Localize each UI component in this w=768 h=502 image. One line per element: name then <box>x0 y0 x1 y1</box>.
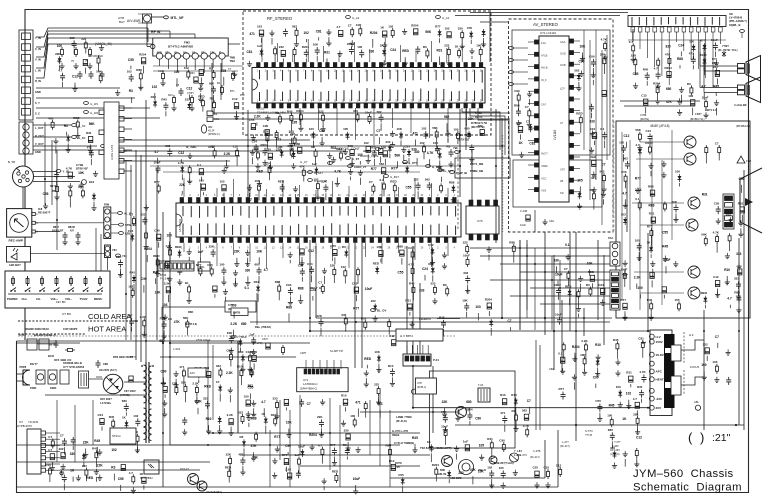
svg-text:C7: C7 <box>129 213 133 217</box>
wire <box>69 198 71 207</box>
U401 pin 3 <box>119 127 124 132</box>
svg-text:10uF: 10uF <box>441 425 448 429</box>
resistor <box>156 258 159 268</box>
ground <box>382 42 387 48</box>
wire <box>690 32 692 60</box>
svg-text:C7: C7 <box>715 142 719 146</box>
svg-text:C8? 400V: C8? 400V <box>124 389 136 393</box>
capacitor <box>78 71 83 79</box>
resistor <box>279 114 282 124</box>
video out transistor <box>688 287 700 299</box>
wire bus <box>119 155 240 157</box>
U201 top pin names <box>183 206 456 218</box>
wire <box>681 95 683 104</box>
svg-text:C7: C7 <box>564 267 568 271</box>
svg-text:???-B: ???-B <box>585 433 592 437</box>
ground <box>576 85 581 91</box>
wire <box>294 57 296 64</box>
electrolytic capacitor <box>61 453 65 459</box>
svg-text:LV1116: LV1116 <box>553 129 557 140</box>
svg-text:C55: C55 <box>714 202 720 206</box>
capacitor <box>656 71 661 79</box>
ground <box>442 252 447 258</box>
wire <box>114 440 116 444</box>
ground <box>655 98 660 104</box>
svg-text:BA?: BA? <box>119 20 125 24</box>
diode <box>514 398 518 406</box>
svg-text:333: 333 <box>216 364 221 368</box>
svg-text:C55: C55 <box>330 244 336 248</box>
electrolytic capacitor <box>480 130 484 136</box>
ground <box>572 356 577 362</box>
svg-text:R10: R10 <box>388 364 394 368</box>
wire <box>680 51 682 56</box>
electrolytic capacitor <box>121 465 125 471</box>
capacitor <box>211 86 216 94</box>
connector pin 5 <box>22 76 31 83</box>
wire <box>528 189 535 191</box>
wire <box>33 176 75 178</box>
resistor <box>650 228 653 238</box>
wire <box>198 380 200 383</box>
diode <box>241 354 245 362</box>
svg-text:102: 102 <box>341 265 346 269</box>
resistor <box>412 285 415 295</box>
wire <box>513 71 528 73</box>
wire <box>634 271 684 273</box>
wire <box>333 360 335 369</box>
junction <box>551 279 553 281</box>
svg-text:U?0: U?0 <box>477 219 483 223</box>
svg-text:VCC: VCC <box>541 176 547 180</box>
svg-text:12V: 12V <box>210 53 215 55</box>
resistor <box>175 385 178 395</box>
wire <box>529 99 531 105</box>
svg-text:Y84: Y84 <box>112 248 117 252</box>
resistor <box>357 267 360 277</box>
wire <box>528 152 535 154</box>
svg-text:10K: 10K <box>462 298 468 302</box>
ground <box>591 72 596 78</box>
IC U801 LA4708 body <box>628 16 726 27</box>
ground <box>288 299 293 305</box>
capacitor <box>129 74 134 82</box>
CRT funnel symbol <box>740 168 762 233</box>
svg-text:680: 680 <box>122 399 127 403</box>
svg-text:IL-0?6 L-3?8: IL-0?6 L-3?8 <box>392 429 408 433</box>
U201 top pins <box>180 198 456 204</box>
ground <box>187 153 192 159</box>
crystal X101 4.43MHz <box>201 125 206 133</box>
wire <box>126 429 128 437</box>
wire <box>471 56 473 59</box>
svg-text:C90: C90 <box>739 177 745 181</box>
wire bus <box>519 240 521 330</box>
wire <box>417 345 419 354</box>
wire <box>480 21 508 23</box>
wire bus <box>501 118 503 318</box>
svg-text:C24: C24 <box>265 162 271 166</box>
wire bus <box>569 232 571 331</box>
svg-text:1K: 1K <box>519 141 524 145</box>
svg-text:(4F/B-J): (4F/B-J) <box>417 386 426 389</box>
wire <box>253 452 255 456</box>
wire <box>248 193 250 196</box>
ground <box>534 482 539 488</box>
ground <box>596 354 601 360</box>
resistor <box>526 427 529 437</box>
U601 L pin 1 <box>535 40 540 44</box>
electrolytic capacitor <box>379 149 383 155</box>
terminal <box>308 171 313 174</box>
wire <box>373 108 375 145</box>
svg-text:F1A: F1A <box>541 41 546 45</box>
wire <box>712 32 714 87</box>
svg-text:C55: C55 <box>595 399 601 403</box>
resistor <box>173 95 176 105</box>
svg-text:R45: R45 <box>647 298 653 302</box>
ground <box>50 465 55 471</box>
terminal <box>328 162 333 165</box>
DIN pin <box>17 172 20 175</box>
svg-text:ABL: ABL <box>549 367 555 371</box>
capacitor <box>309 266 314 274</box>
resistor <box>278 284 281 294</box>
wire <box>529 407 531 414</box>
wire <box>133 284 135 290</box>
wire <box>223 193 225 198</box>
wire <box>626 142 628 148</box>
key switch POWER <box>10 276 16 292</box>
wire <box>208 425 210 429</box>
svg-text:22K: 22K <box>116 255 122 259</box>
ground <box>579 71 584 77</box>
wire <box>604 141 606 148</box>
wire <box>411 345 413 354</box>
wire <box>679 65 681 68</box>
key switch MENU <box>97 276 103 292</box>
resistor <box>351 27 354 37</box>
resistor pack <box>198 262 210 271</box>
P201 pin 8 <box>191 263 194 269</box>
wire <box>480 255 610 257</box>
svg-text:102: 102 <box>626 392 632 396</box>
wire <box>56 400 58 462</box>
svg-text:AVLB: AVLB <box>541 66 548 70</box>
svg-text:IF_A8G: IF_A8G <box>186 145 197 149</box>
ground <box>622 314 627 320</box>
svg-text:C55: C55 <box>43 192 49 196</box>
antenna jack circle <box>144 15 151 22</box>
svg-text:C12: C12 <box>186 87 192 91</box>
svg-text:S_YC: S_YC <box>8 160 15 164</box>
wire <box>445 438 447 445</box>
svg-text:333: 333 <box>734 277 739 281</box>
ground <box>198 85 203 91</box>
svg-text:BR8: BR8 <box>712 61 718 65</box>
connector P303 (2-circle strip) <box>105 245 111 258</box>
wire <box>400 45 402 62</box>
svg-text:HOT AREA: HOT AREA <box>88 325 127 334</box>
electrolytic capacitor <box>234 103 238 109</box>
wire <box>703 93 705 101</box>
svg-text:C90: C90 <box>499 439 505 443</box>
U601 pin name stubs left <box>541 41 548 193</box>
capacitor <box>100 71 105 79</box>
STR IC switcher <box>110 428 136 444</box>
wire <box>530 287 610 289</box>
diode <box>431 266 435 274</box>
svg-text:(VMOL_M): (VMOL_M) <box>95 42 112 46</box>
wire <box>167 295 169 302</box>
wire <box>124 170 132 172</box>
CRT socket pin 5 <box>725 222 733 227</box>
svg-text:R204: R204 <box>572 345 580 349</box>
ground <box>167 276 172 282</box>
svg-text:1uF: 1uF <box>257 44 263 48</box>
svg-text:2.2K: 2.2K <box>254 115 261 119</box>
svg-text:R31: R31 <box>637 385 643 389</box>
svg-text:V_IN: V_IN <box>35 58 41 62</box>
svg-text:105: 105 <box>712 360 717 364</box>
svg-text:KEY BD: KEY BD <box>56 300 66 304</box>
capacitor <box>736 295 741 303</box>
svg-text:RED: RED <box>588 270 595 274</box>
svg-text:C-4?B: C-4?B <box>533 449 541 453</box>
capacitor <box>319 419 324 427</box>
wire <box>240 378 242 385</box>
svg-text:R204: R204 <box>411 23 419 27</box>
wire <box>350 177 352 181</box>
U201 top pin numbers <box>181 194 456 197</box>
wire <box>726 276 728 284</box>
svg-text:333: 333 <box>238 411 243 415</box>
wire <box>282 180 284 197</box>
svg-text:(4F-4L?): (4F-4L?) <box>530 456 540 459</box>
svg-text:MTL_NF: MTL_NF <box>171 16 184 20</box>
wire <box>398 243 400 253</box>
svg-text:T8?1: T8?1 <box>130 355 137 359</box>
ground <box>437 163 442 169</box>
terminal <box>308 179 313 182</box>
wire <box>111 212 118 214</box>
terminal MTL_NF <box>164 16 169 19</box>
diode <box>399 132 403 140</box>
ground <box>513 470 518 476</box>
svg-text:R77: R77 <box>330 443 336 447</box>
svg-text:R77: R77 <box>371 167 377 171</box>
tuner RF input pin <box>151 44 155 48</box>
wire <box>306 39 308 42</box>
svg-text:4.7K: 4.7K <box>713 231 720 235</box>
svg-text:(BP4/B2LB): (BP4/B2LB) <box>736 124 750 128</box>
wire <box>194 59 196 70</box>
resistor <box>547 469 550 479</box>
ground <box>527 91 532 97</box>
wire <box>276 140 278 148</box>
wire <box>528 176 535 178</box>
svg-text:IL_W2: IL_W2 <box>90 111 99 115</box>
wire <box>73 49 75 54</box>
diode <box>388 145 392 153</box>
ground <box>337 51 342 57</box>
ground <box>221 279 226 285</box>
wire <box>321 428 323 435</box>
wire <box>383 176 385 181</box>
wire <box>535 340 537 430</box>
wire <box>46 432 61 434</box>
transistor Q402 <box>197 481 207 491</box>
svg-text:100: 100 <box>357 45 362 49</box>
svg-text:IL_8T: IL_8T <box>352 157 359 161</box>
svg-text:330: 330 <box>341 313 346 317</box>
svg-text:102: 102 <box>388 25 393 29</box>
svg-text:103: 103 <box>253 147 258 151</box>
ground <box>580 56 585 62</box>
ground <box>315 194 320 200</box>
wire <box>319 360 321 369</box>
wire <box>249 184 251 197</box>
resistor <box>250 367 253 377</box>
connector pin 4 <box>22 65 31 72</box>
cold/hot separator dashes <box>18 320 138 322</box>
svg-text:C90: C90 <box>475 417 481 421</box>
wire <box>197 408 199 415</box>
antenna input jack <box>143 14 152 23</box>
svg-text:(3P-LTC): (3P-LTC) <box>252 341 263 345</box>
svg-text:10K: 10K <box>374 350 380 354</box>
wire <box>318 108 320 130</box>
junction dots <box>309 330 311 332</box>
svg-text:105: 105 <box>479 443 485 447</box>
resistor <box>99 73 102 83</box>
svg-text:FB2: FB2 <box>746 159 752 163</box>
electrolytic capacitor <box>602 90 606 96</box>
resistor <box>353 418 356 428</box>
ground <box>455 415 460 421</box>
svg-text:DST-3?: DST-3? <box>180 467 189 471</box>
wire <box>95 460 97 467</box>
svg-text:VS?: VS? <box>560 168 565 172</box>
video out transistor <box>686 219 698 231</box>
ground <box>446 60 451 66</box>
svg-text:C12: C12 <box>641 94 647 98</box>
wire <box>230 362 232 367</box>
electrolytic capacitor <box>379 251 383 257</box>
wire <box>372 39 374 48</box>
electrolytic capacitor <box>68 172 72 178</box>
svg-text:R3: R3 <box>64 124 68 128</box>
ground <box>430 259 435 265</box>
DIN key notch <box>16 168 20 171</box>
svg-text:222: 222 <box>210 145 215 149</box>
wire <box>447 138 449 142</box>
wire <box>216 243 218 266</box>
svg-text:333: 333 <box>273 397 278 401</box>
resistor <box>302 168 305 178</box>
wire <box>145 241 147 244</box>
wire <box>196 395 198 403</box>
ground <box>187 249 192 255</box>
wire fan from A/V connector <box>36 28 148 37</box>
ground <box>603 54 608 60</box>
U101 top pins <box>257 63 483 68</box>
svg-text:471: 471 <box>355 401 361 405</box>
wire <box>299 185 301 197</box>
resistor <box>322 113 325 123</box>
hot area gray dashes <box>18 335 455 337</box>
diode <box>346 132 350 140</box>
wire <box>515 407 517 415</box>
wire <box>704 70 738 72</box>
wire <box>300 295 302 299</box>
diode <box>577 73 581 81</box>
svg-text:2.2K: 2.2K <box>230 322 237 326</box>
svg-text:U?P: U?P <box>417 381 422 385</box>
ground <box>73 63 78 69</box>
svg-text:YBL: YBL <box>453 146 459 150</box>
svg-text:R6D: R6D <box>188 310 193 314</box>
wire <box>447 188 449 197</box>
IC U202 (8-pin) <box>466 206 499 234</box>
wire <box>89 378 103 380</box>
electrolytic capacitor <box>251 124 255 130</box>
svg-text:C90: C90 <box>263 124 269 128</box>
svg-text:R31: R31 <box>487 437 493 441</box>
wire <box>429 159 431 167</box>
wire <box>200 243 202 259</box>
AV_STEREO section dashed box <box>509 19 614 232</box>
svg-text:LA?24B+: LA?24B+ <box>100 401 112 405</box>
wire <box>665 266 667 273</box>
gray dashed bus mid <box>457 150 459 231</box>
diode <box>703 296 707 304</box>
ground <box>222 167 227 173</box>
ground <box>171 105 176 111</box>
wire bus <box>140 155 142 362</box>
svg-text:680: 680 <box>428 262 433 266</box>
keypad common wire <box>8 293 102 295</box>
ground <box>272 458 277 464</box>
svg-text:222: 222 <box>81 37 86 41</box>
resistor <box>435 467 438 477</box>
svg-text:10K: 10K <box>286 421 293 425</box>
U101 top pin names <box>260 70 483 83</box>
P303 pin 2 <box>105 252 110 257</box>
svg-text:AGA: AGA <box>560 40 566 44</box>
svg-text:222: 222 <box>185 98 190 102</box>
wire <box>513 83 528 85</box>
wire <box>539 345 541 430</box>
ground <box>251 411 256 417</box>
U601 R pin 11 <box>569 155 574 159</box>
wire <box>269 175 271 180</box>
wire <box>625 184 627 189</box>
ground <box>229 348 234 354</box>
capacitor <box>257 267 262 275</box>
resistor <box>229 456 232 466</box>
ground <box>144 204 149 210</box>
wire <box>243 448 245 456</box>
svg-text:4 ohm BF: 4 ohm BF <box>734 103 747 107</box>
svg-text:RED: RED <box>576 112 583 116</box>
wire bus <box>316 317 612 319</box>
electrolytic capacitor <box>502 399 506 405</box>
wire <box>353 42 355 62</box>
electrolytic capacitor <box>165 262 169 268</box>
electrolytic capacitor <box>715 281 719 287</box>
svg-text:C12: C12 <box>624 134 630 138</box>
